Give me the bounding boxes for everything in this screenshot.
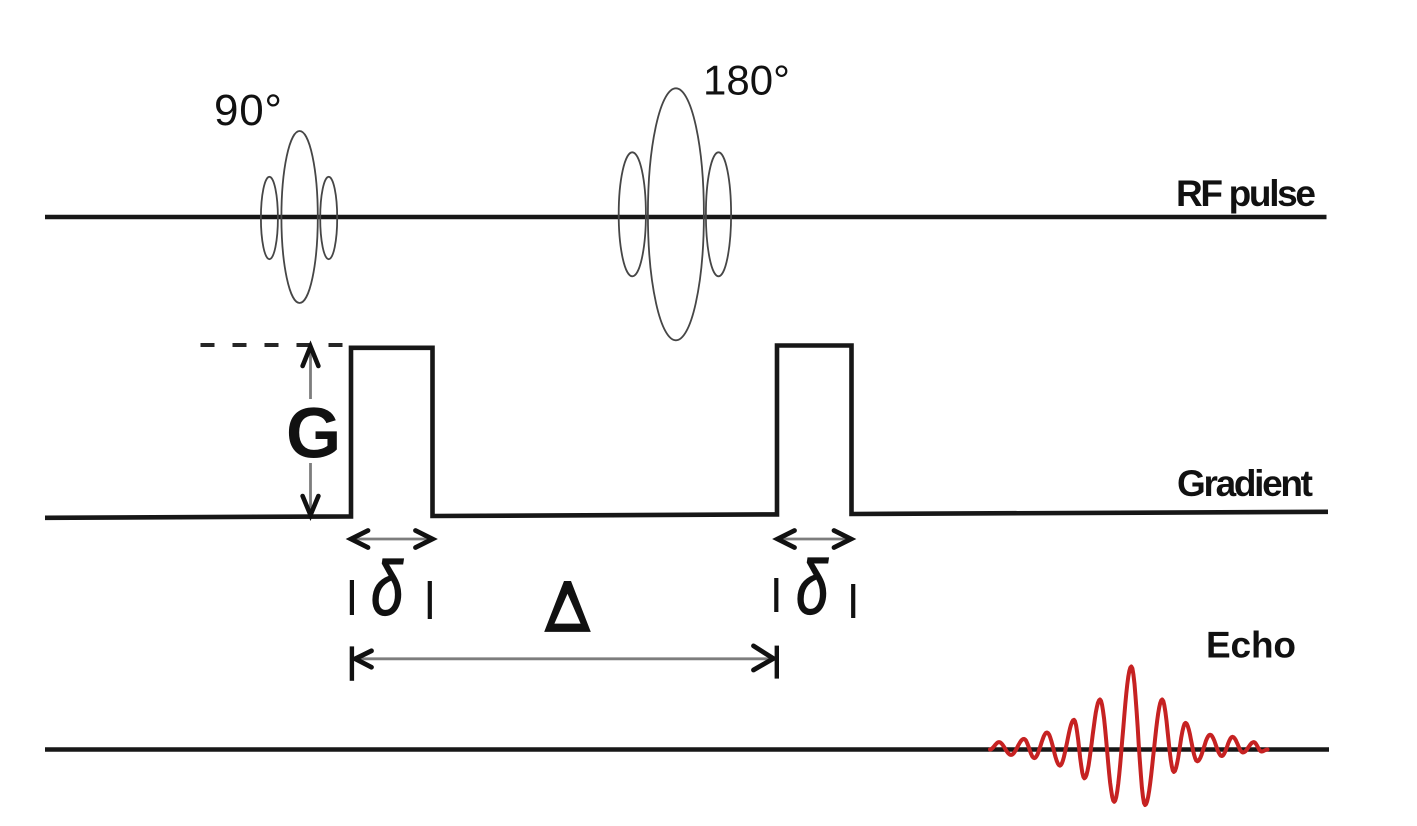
Delta arrow left head — [355, 651, 371, 667]
delta-1 width arrow right head — [416, 531, 433, 548]
delta-2 width arrow right head — [834, 531, 851, 548]
delta-1 width arrow left head — [351, 531, 368, 548]
delta-1 left boundary tick — [350, 580, 354, 615]
red echo signal — [990, 667, 1268, 806]
delta-1 width arrow stem — [352, 538, 431, 541]
180-degree RF pulse: right lobe ellipse — [706, 152, 731, 276]
echo baseline — [45, 747, 1329, 752]
gradient waveform with two rectangular pulses — [45, 346, 1328, 518]
delta-2 width arrow stem — [778, 538, 851, 541]
G amplitude arrow top head — [303, 347, 319, 367]
Delta arrow left end tick — [350, 646, 354, 680]
dashed reference line at gradient amplitude — [201, 343, 347, 347]
svg-text:90°: 90° — [214, 86, 282, 135]
delta-2 left boundary tick — [774, 578, 778, 612]
svg-text:δ: δ — [796, 545, 829, 631]
delta-2 right boundary tick — [851, 584, 855, 618]
label Delta — [544, 581, 591, 632]
G amplitude arrow bottom head — [303, 496, 319, 515]
delta-2 width arrow left head — [778, 531, 795, 548]
white backing for G label — [283, 399, 341, 463]
svg-text:180°: 180° — [703, 57, 790, 104]
Delta arrow right end tick — [775, 646, 779, 679]
svg-text:G: G — [286, 395, 341, 474]
svg-text:δ: δ — [371, 546, 404, 632]
G amplitude arrow stem — [309, 352, 312, 513]
svg-text:Gradient: Gradient — [1177, 463, 1313, 504]
svg-text:RF pulse: RF pulse — [1176, 173, 1316, 214]
RF pulse baseline — [45, 215, 1327, 220]
Delta arrow right head — [754, 646, 774, 670]
90-degree RF pulse: left lobe ellipse — [261, 177, 278, 259]
90-degree RF pulse: main lobe ellipse — [281, 131, 317, 303]
180-degree RF pulse: left lobe ellipse — [619, 152, 646, 276]
svg-text:Echo: Echo — [1206, 625, 1296, 666]
delta-1 right boundary tick — [428, 581, 432, 619]
180-degree RF pulse: main lobe ellipse — [648, 88, 704, 340]
90-degree RF pulse: right lobe ellipse — [320, 177, 337, 259]
Delta separation arrow stem — [353, 657, 776, 660]
